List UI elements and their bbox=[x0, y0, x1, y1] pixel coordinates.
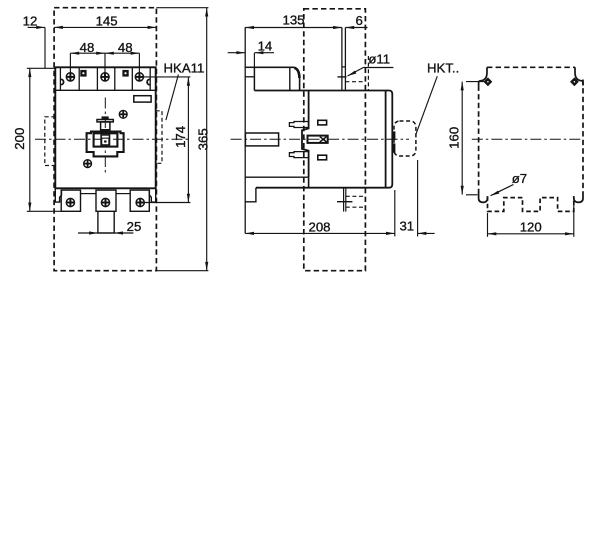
center block slot bbox=[102, 136, 109, 138]
HKT blob dashed bbox=[394, 121, 416, 156]
centerline horizontal front bbox=[35, 138, 191, 140]
plate bottom step bbox=[245, 188, 256, 202]
strip divider 2 bbox=[96, 67, 98, 90]
leader o7 bbox=[491, 185, 514, 196]
envelope dashed band side view bbox=[304, 9, 366, 271]
svg-text:6: 6 bbox=[356, 13, 363, 28]
dim 6 line bbox=[345, 27, 367, 29]
nameplate rectangle bbox=[134, 96, 151, 102]
envelope dashed box front view bbox=[54, 8, 156, 271]
leader HKT bbox=[416, 76, 437, 134]
hook top left bbox=[479, 67, 487, 85]
hook bottom right bbox=[574, 194, 583, 203]
svg-text:174: 174 bbox=[173, 126, 188, 148]
svg-text:208: 208 bbox=[308, 219, 330, 234]
body bottom edge side bbox=[256, 187, 386, 189]
upper contact tab bbox=[289, 122, 308, 128]
dim 12 line bbox=[28, 26, 45, 28]
right cover rounded bbox=[386, 91, 393, 188]
strip divider 4 bbox=[131, 67, 133, 90]
bottom fixing stud bar bbox=[343, 189, 345, 212]
hook top right bbox=[575, 67, 583, 85]
bottom screw 3 bbox=[136, 198, 144, 206]
mounting plate edge line bbox=[244, 27, 246, 233]
svg-text:ø7: ø7 bbox=[512, 171, 527, 186]
bottom screw 2 bbox=[101, 198, 109, 206]
dim 14 lines bbox=[228, 52, 246, 54]
svg-text:HKA11: HKA11 bbox=[164, 61, 205, 76]
leader HKA11 bbox=[166, 75, 179, 121]
dim 365 extension top bbox=[156, 7, 208, 9]
dim 145 line bbox=[54, 26, 156, 28]
top terminal block side bbox=[254, 67, 299, 90]
dim 120 extensions bbox=[487, 213, 489, 237]
bracket outer bbox=[87, 132, 124, 157]
armature cap bbox=[102, 116, 109, 119]
terminal screw top 1 bbox=[66, 73, 74, 81]
mounting tab 6mm bbox=[341, 28, 343, 90]
bottom left foot bbox=[55, 188, 61, 202]
center inner box bbox=[102, 139, 108, 145]
dim 365 line bbox=[206, 8, 208, 271]
strip divider 3 bbox=[114, 67, 116, 90]
svg-text:200: 200 bbox=[12, 128, 27, 150]
body top edge side bbox=[254, 90, 385, 92]
dim 200 extension bottom bbox=[27, 210, 61, 212]
block clamp curve thick bbox=[295, 68, 300, 78]
svg-text:12: 12 bbox=[23, 13, 38, 28]
diamond hole top right bbox=[570, 77, 579, 86]
center box X bbox=[320, 137, 327, 142]
dim 135 line bbox=[245, 27, 342, 29]
vent slot lower bbox=[318, 155, 327, 160]
center dot bbox=[104, 140, 106, 142]
tab hole hidden line bbox=[345, 81, 364, 83]
SIDE VIEW GROUP bbox=[231, 9, 416, 271]
svg-text:48: 48 bbox=[80, 40, 95, 55]
SIDE VIEW DIMENSIONS bbox=[228, 26, 438, 237]
FRONT VIEW TEXTS bbox=[12, 13, 210, 234]
side accessory dashed right bbox=[156, 111, 162, 164]
stem collar dark bbox=[100, 129, 110, 131]
dim 200 extension top bbox=[27, 67, 56, 69]
terminal strip bottom line bbox=[55, 89, 155, 91]
dim 160 line bbox=[461, 82, 463, 195]
centerline vertical front bbox=[104, 98, 106, 174]
aux contact block 1 bbox=[80, 70, 86, 77]
center block bbox=[100, 134, 110, 146]
plate top edge dashed bbox=[487, 66, 575, 68]
svg-text:14: 14 bbox=[258, 38, 273, 53]
block divider side bbox=[289, 67, 291, 90]
bottom terminal block 3 bbox=[130, 190, 149, 211]
PLATE DIMENSIONS bbox=[461, 82, 574, 237]
svg-text:HKT..: HKT.. bbox=[427, 61, 459, 76]
body outline front bbox=[55, 67, 155, 188]
tab tick bbox=[342, 66, 346, 68]
armature flange bbox=[97, 120, 113, 122]
clip hook right on strip bbox=[147, 79, 150, 84]
dim 31 line bbox=[418, 232, 435, 234]
dim 174 extension top bbox=[144, 76, 191, 78]
svg-text:48: 48 bbox=[118, 40, 133, 55]
dim 14 extension bbox=[253, 53, 255, 68]
bottom terminal block 1 bbox=[61, 190, 80, 211]
dim 174 extension bottom bbox=[144, 202, 190, 204]
svg-text:145: 145 bbox=[96, 14, 118, 29]
bracket inner box bbox=[94, 133, 118, 146]
center box bbox=[308, 136, 328, 143]
FRONT VIEW GROUP bbox=[35, 8, 191, 271]
diamond hole top left bbox=[484, 77, 493, 86]
dim 174 line bbox=[187, 77, 189, 203]
dim 160 extension bottom bbox=[466, 194, 478, 196]
battlement feet dashed bbox=[488, 196, 574, 211]
dim 365 extension bottom bbox=[156, 270, 208, 272]
plate right edge upper bbox=[253, 67, 255, 90]
svg-text:160: 160 bbox=[446, 127, 461, 149]
main block left edge with notch bbox=[302, 91, 309, 178]
svg-text:31: 31 bbox=[399, 219, 414, 234]
svg-text:365: 365 bbox=[195, 128, 210, 150]
stud crossbar bbox=[337, 201, 352, 203]
extra hidden dashed line near tab bbox=[367, 56, 369, 90]
dim 25 lines bbox=[78, 232, 98, 234]
dim 120 line bbox=[488, 233, 574, 235]
tab hole tick bbox=[338, 76, 347, 78]
plate top edge bbox=[245, 66, 254, 68]
bottom connecting band bbox=[81, 193, 97, 195]
MOUNTING PLATE VIEW GROUP bbox=[472, 67, 583, 211]
magnet black bar bbox=[393, 131, 396, 140]
dim 208 line bbox=[245, 232, 395, 234]
body screw lower left bbox=[84, 160, 92, 168]
svg-text:135: 135 bbox=[282, 13, 304, 28]
centerline side bbox=[231, 138, 409, 140]
aux contact block 2 bbox=[122, 70, 128, 77]
plate step tick bbox=[245, 76, 254, 78]
terminal screw top 2 bbox=[101, 73, 109, 81]
strip inner right edge bbox=[149, 67, 151, 90]
plate left edge dashed bbox=[478, 86, 480, 194]
dim 200 line bbox=[29, 68, 31, 211]
armature stem bbox=[101, 122, 110, 130]
lower contact tab bbox=[289, 152, 308, 158]
terminal screw top 3 bbox=[135, 73, 143, 81]
stud hidden lines bbox=[346, 195, 365, 197]
dim 31 extensions bbox=[394, 190, 396, 236]
dim 160 extension top bbox=[466, 81, 484, 83]
body right seam bbox=[385, 91, 387, 188]
FRONT VIEW DIMENSIONS bbox=[27, 8, 209, 271]
bottom right foot bbox=[149, 188, 155, 202]
dim 48 lines bbox=[70, 52, 139, 54]
bottom screw 1 bbox=[66, 198, 74, 206]
bottom terminal block 2 bbox=[96, 190, 116, 211]
svg-text:ø11: ø11 bbox=[368, 52, 390, 67]
dim 48 extension lines bbox=[69, 53, 71, 73]
centerline plate bbox=[472, 138, 583, 140]
clip hook left on strip bbox=[61, 79, 64, 84]
hook bottom left bbox=[479, 194, 488, 203]
armature pad rect bbox=[245, 133, 278, 146]
PLATE TEXTS bbox=[446, 127, 541, 235]
strip inner left edge bbox=[59, 67, 61, 90]
dim 12 extension line bbox=[44, 27, 46, 68]
leader o11 bbox=[363, 67, 393, 69]
lower left bottom lines bbox=[245, 176, 308, 178]
plate right edge dashed bbox=[582, 80, 584, 194]
strip divider 1 bbox=[78, 67, 80, 90]
side accessory dashed left bbox=[45, 117, 56, 166]
svg-text:25: 25 bbox=[127, 219, 142, 234]
body screw upper right bbox=[119, 110, 127, 118]
vent slot upper bbox=[318, 120, 327, 125]
svg-text:120: 120 bbox=[520, 219, 542, 234]
din rail tab 25mm bbox=[98, 211, 114, 233]
SIDE VIEW TEXTS bbox=[258, 13, 460, 235]
